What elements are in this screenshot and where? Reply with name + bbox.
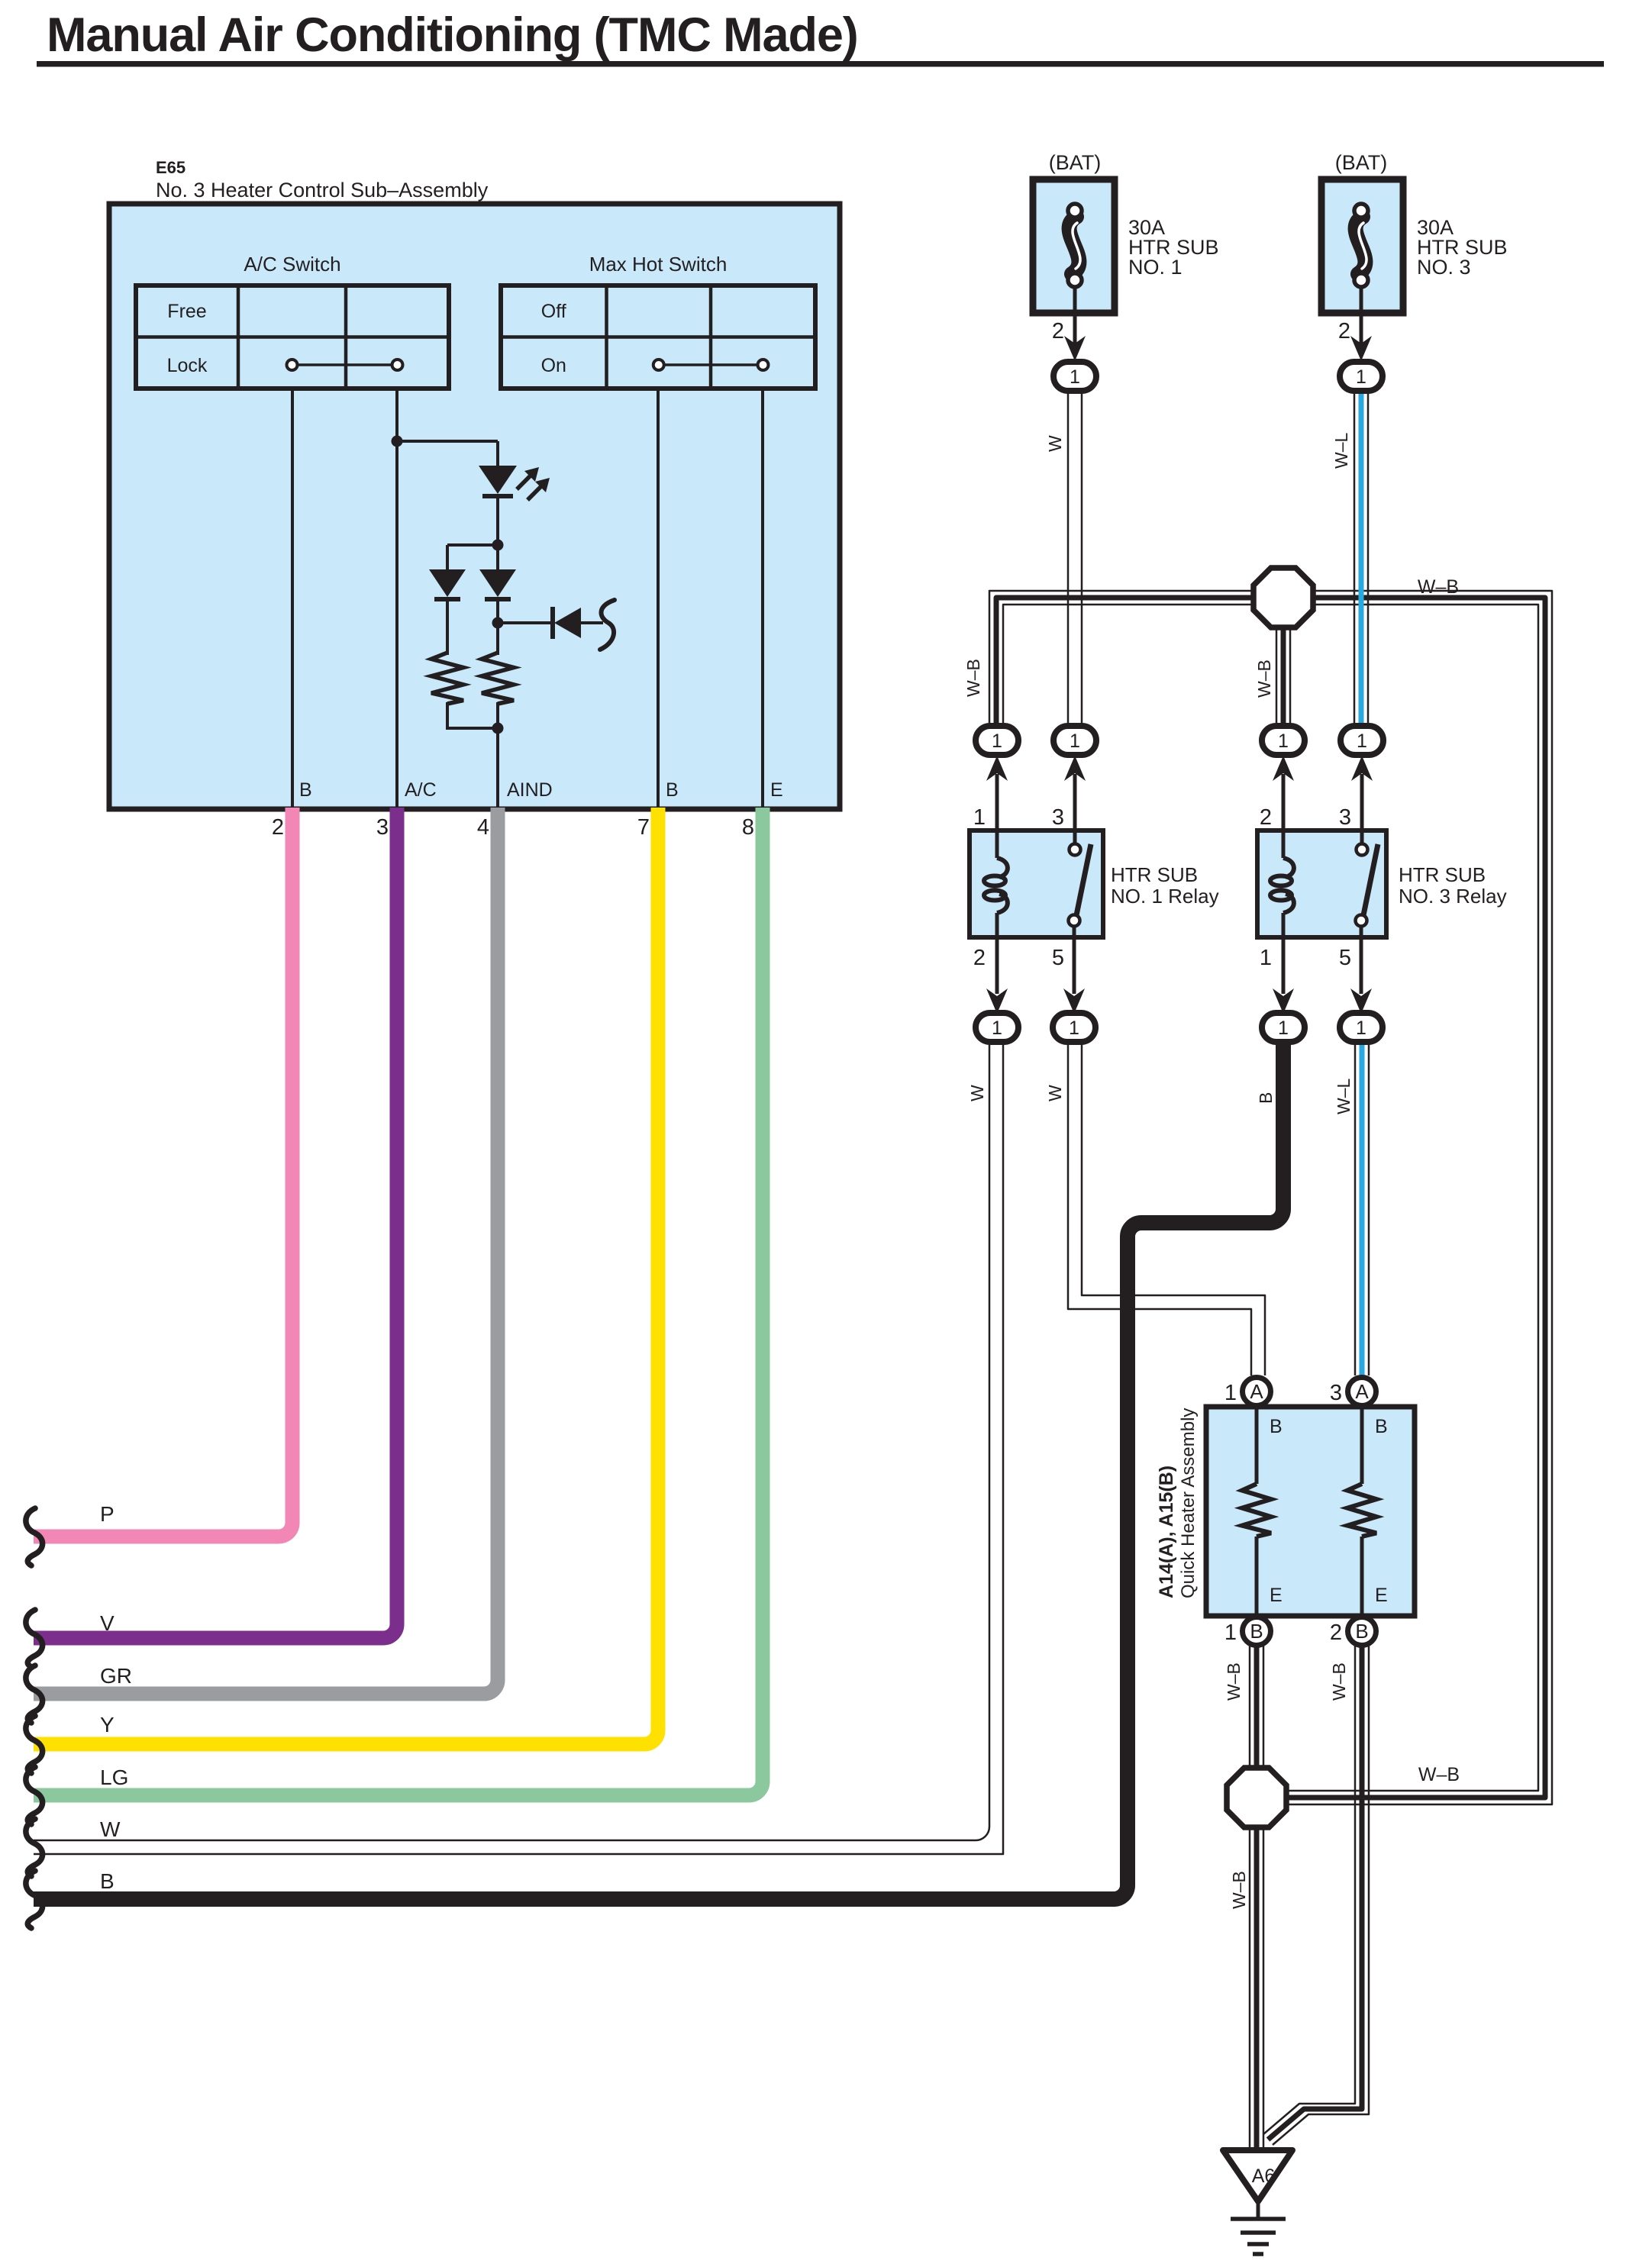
svg-text:B: B: [100, 1869, 115, 1893]
svg-text:1: 1: [1356, 1017, 1366, 1039]
svg-text:E65: E65: [156, 158, 186, 177]
svg-text:A: A: [1250, 1380, 1263, 1403]
svg-text:E: E: [1375, 1585, 1388, 1606]
svg-text:Manual Air Conditioning (TMC M: Manual Air Conditioning (TMC Made): [47, 8, 858, 62]
svg-text:NO. 3: NO. 3: [1417, 256, 1471, 279]
svg-text:Y: Y: [100, 1713, 115, 1737]
svg-text:W: W: [100, 1817, 121, 1841]
svg-text:Lock: Lock: [167, 355, 208, 376]
svg-text:4: 4: [477, 815, 489, 840]
svg-text:W–B: W–B: [963, 659, 983, 697]
svg-text:3: 3: [1330, 1381, 1342, 1405]
svg-text:A/C: A/C: [405, 779, 437, 801]
svg-text:8: 8: [742, 815, 754, 840]
svg-text:A: A: [1355, 1380, 1369, 1403]
svg-text:1: 1: [1278, 1017, 1289, 1039]
svg-text:(BAT): (BAT): [1335, 151, 1388, 174]
svg-text:2: 2: [272, 815, 284, 840]
svg-text:W–B: W–B: [1329, 1662, 1349, 1701]
svg-text:On: On: [541, 355, 566, 376]
svg-text:1: 1: [1278, 730, 1289, 752]
svg-text:W–B: W–B: [1418, 1764, 1460, 1785]
svg-text:NO. 1: NO. 1: [1128, 256, 1183, 279]
svg-text:W–L: W–L: [1331, 433, 1351, 469]
svg-text:5: 5: [1339, 946, 1351, 970]
svg-text:1: 1: [1069, 1017, 1079, 1039]
svg-text:W: W: [1045, 435, 1065, 452]
svg-text:A/C Switch: A/C Switch: [244, 253, 340, 276]
svg-text:(BAT): (BAT): [1049, 151, 1102, 174]
svg-text:B: B: [299, 779, 312, 801]
svg-text:Off: Off: [541, 301, 566, 322]
svg-text:1: 1: [1356, 366, 1366, 388]
svg-text:P: P: [100, 1502, 115, 1526]
svg-text:W–L: W–L: [1334, 1079, 1354, 1115]
svg-text:GR: GR: [100, 1664, 132, 1688]
svg-text:B: B: [1355, 1620, 1368, 1643]
svg-text:B: B: [1256, 1092, 1276, 1104]
svg-text:3: 3: [1339, 805, 1351, 830]
svg-text:1: 1: [1224, 1381, 1237, 1405]
svg-text:A14(A), A15(B): A14(A), A15(B): [1156, 1466, 1177, 1598]
svg-text:1: 1: [1070, 366, 1080, 388]
svg-text:3: 3: [376, 815, 389, 840]
svg-text:1: 1: [1357, 730, 1367, 752]
svg-text:Quick Heater Assembly: Quick Heater Assembly: [1178, 1408, 1199, 1598]
svg-text:1: 1: [1224, 1620, 1237, 1645]
svg-text:AIND: AIND: [507, 779, 553, 801]
svg-text:Max Hot Switch: Max Hot Switch: [589, 253, 728, 276]
svg-text:Free: Free: [167, 301, 206, 322]
svg-text:2: 2: [1260, 805, 1272, 830]
svg-text:HTR SUB: HTR SUB: [1111, 863, 1198, 886]
svg-text:1: 1: [992, 1017, 1002, 1039]
svg-text:2: 2: [1338, 319, 1350, 343]
svg-text:1: 1: [973, 805, 986, 830]
svg-text:1: 1: [1260, 946, 1272, 970]
svg-text:2: 2: [1052, 319, 1064, 343]
svg-text:B: B: [666, 779, 679, 801]
svg-text:5: 5: [1052, 946, 1064, 970]
svg-text:E: E: [770, 779, 783, 801]
svg-text:7: 7: [637, 815, 650, 840]
svg-text:A6: A6: [1252, 2165, 1276, 2187]
svg-text:B: B: [1375, 1416, 1388, 1437]
svg-text:HTR SUB: HTR SUB: [1399, 863, 1486, 886]
svg-text:No. 3 Heater Control Sub–Assem: No. 3 Heater Control Sub–Assembly: [156, 179, 489, 202]
svg-text:2: 2: [973, 946, 986, 970]
svg-text:1: 1: [1070, 730, 1080, 752]
svg-text:E: E: [1270, 1585, 1283, 1606]
svg-text:W: W: [967, 1085, 987, 1101]
svg-text:V: V: [100, 1611, 115, 1635]
svg-text:B: B: [1270, 1416, 1283, 1437]
svg-text:NO. 1 Relay: NO. 1 Relay: [1111, 885, 1219, 908]
svg-text:W–B: W–B: [1418, 576, 1459, 598]
svg-text:1: 1: [992, 730, 1002, 752]
svg-text:2: 2: [1330, 1620, 1342, 1645]
svg-text:W–B: W–B: [1229, 1871, 1249, 1909]
svg-text:3: 3: [1052, 805, 1064, 830]
svg-text:W: W: [1045, 1085, 1065, 1101]
svg-text:W–B: W–B: [1224, 1662, 1244, 1701]
svg-text:NO. 3 Relay: NO. 3 Relay: [1399, 885, 1507, 908]
svg-text:B: B: [1250, 1620, 1263, 1643]
svg-text:W–B: W–B: [1254, 659, 1274, 698]
svg-text:LG: LG: [100, 1766, 128, 1789]
